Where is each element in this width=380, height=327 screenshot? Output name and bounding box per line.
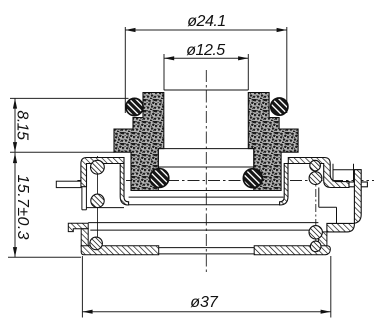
svg-text:ø12.5: ø12.5: [186, 42, 225, 59]
svg-text:15.7±0.3: 15.7±0.3: [14, 175, 31, 240]
svg-text:ø37: ø37: [190, 294, 219, 311]
svg-text:8.15: 8.15: [14, 110, 31, 140]
svg-text:ø24.1: ø24.1: [187, 13, 225, 30]
